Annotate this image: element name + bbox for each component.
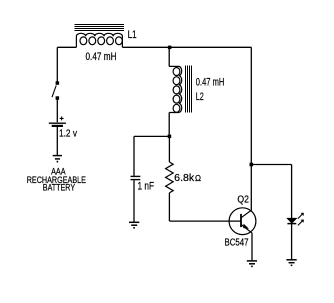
LED triangle (287, 218, 296, 223)
svg-text:1.2 v: 1.2 v (59, 128, 77, 139)
svg-text:0.47 mH: 0.47 mH (196, 77, 225, 89)
wire: switch to battery positive (56, 99, 58, 122)
wire: top net junction down to L2 top lead (168, 47, 170, 66)
Q2 base bar (240, 214, 242, 227)
svg-text:BC547: BC547 (225, 237, 249, 248)
wire: node B left to capacitor branch (134, 135, 169, 137)
wire: top net right segment (L1 right lead across to right rail corner) (122, 46, 251, 48)
wire: battery negative to ground (56, 127, 58, 155)
wire: C1 bottom plate to ground (133, 180, 135, 222)
wire: LED branch down to anode (291, 165, 293, 219)
wire: right rail down to Q2 collector (250, 47, 252, 210)
Q2 emitter slant (241, 224, 252, 233)
battery annotation AAA RECHARGEABLE BATTERY (27, 166, 86, 193)
svg-text:L1: L1 (128, 29, 137, 41)
wire: base wire to Q2 (169, 220, 241, 222)
svg-text:Q2: Q2 (237, 195, 249, 206)
svg-text:BATTERY: BATTERY (43, 182, 76, 193)
Q2 body circle (229, 208, 256, 235)
LED D1 (287, 213, 303, 226)
svg-text:0.47 mH: 0.47 mH (86, 51, 117, 63)
inductor L2 core (4 lines) (186, 65, 192, 112)
LED light arrow 2 (298, 220, 303, 225)
wire: node B down to resistor R1 top (168, 136, 170, 162)
inductor L1 winding (76, 33, 122, 47)
wire: Q2 emitter down to ground (251, 233, 253, 260)
LED light arrow 1 (298, 214, 303, 219)
svg-text:1 nF: 1 nF (138, 180, 155, 192)
ground (emitter) (247, 261, 257, 267)
wire: LED cathode down to ground (291, 224, 293, 260)
wire: resistor bottom down to base wire corner (168, 193, 170, 221)
LED cathode bar (287, 223, 296, 225)
inductor L2 winding (169, 66, 182, 112)
svg-text:L2: L2 (196, 91, 204, 103)
battery B1 1.2v (49, 123, 66, 126)
wire: left rail from top net down to switch (56, 47, 58, 83)
node B junction dot (168, 135, 172, 139)
node A junction dot on top net (168, 46, 172, 50)
battery plus sign (60, 117, 64, 121)
wire: top net left segment (battery rail to L1 left lead) (57, 46, 76, 48)
node C junction dot on right rail (250, 163, 254, 167)
resistor R1 6.8k zigzag (166, 162, 174, 193)
svg-text:6.8k: 6.8k (174, 172, 195, 184)
inductor L1 core (4 lines) (75, 25, 125, 31)
capacitor C1 (131, 176, 141, 179)
ground (capacitor) (129, 222, 139, 228)
wire: node C right to LED branch (251, 164, 291, 166)
transistor Q2 BC547 (229, 208, 256, 235)
svg-text:Ω: Ω (195, 174, 201, 183)
ground (LED) (286, 260, 296, 266)
wire: capacitor branch down to C1 top plate (133, 136, 135, 176)
wire: L2 bottom lead down to node B (168, 113, 170, 137)
Q2 emitter arrow (243, 224, 249, 229)
switch S1 (open SPST) (52, 81, 59, 100)
Q2 collector slant (241, 210, 252, 218)
ground (battery) (53, 156, 62, 162)
